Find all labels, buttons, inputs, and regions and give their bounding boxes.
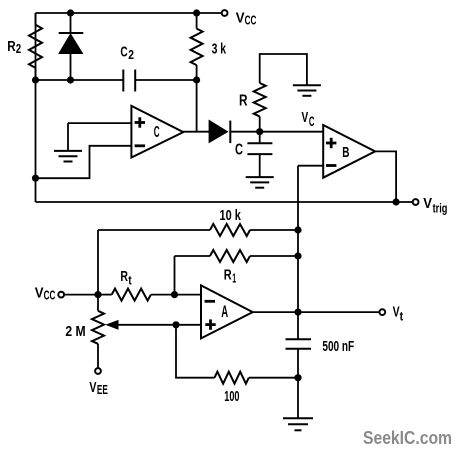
wire	[116, 324, 176, 326]
wire	[175, 294, 202, 296]
svg-text:A: A	[221, 302, 228, 321]
node junction wiper-Aplus	[172, 321, 179, 328]
svg-text:C: C	[309, 114, 315, 129]
label 500nF	[322, 339, 354, 355]
label R2	[7, 38, 21, 56]
svg-text:R: R	[239, 93, 248, 110]
svg-text:t: t	[400, 310, 404, 324]
resistor 3k	[191, 13, 203, 80]
svg-text:1: 1	[232, 272, 236, 286]
wire	[297, 349, 299, 419]
svg-text:C: C	[154, 124, 160, 141]
wire	[375, 151, 396, 202]
svg-text:C: C	[120, 44, 127, 61]
label Rt	[120, 268, 132, 288]
wire	[64, 294, 98, 296]
terminal Vt	[379, 309, 385, 315]
wire	[297, 166, 299, 340]
svg-text:V: V	[302, 109, 309, 126]
wire	[196, 80, 198, 132]
svg-text:3 k: 3 k	[212, 40, 227, 57]
op-amp U-B	[323, 125, 375, 178]
svg-text:trig: trig	[433, 201, 448, 215]
label VC	[302, 109, 315, 129]
label VCC bottom	[35, 285, 56, 303]
capacitor C	[247, 132, 272, 177]
node wiper arrow	[105, 320, 118, 330]
wire	[67, 123, 69, 150]
label R1	[224, 267, 236, 286]
wire	[36, 146, 132, 178]
capacitor 500nF	[286, 339, 312, 349]
wire	[35, 13, 37, 202]
svg-text:10 k: 10 k	[220, 207, 242, 224]
node junction R1-bus	[294, 252, 301, 259]
svg-text:B: B	[342, 144, 349, 161]
ground	[283, 418, 313, 430]
wire	[260, 131, 324, 133]
svg-text:EE: EE	[97, 383, 108, 397]
label VEE	[89, 379, 107, 397]
node junction 100-bus	[294, 374, 301, 381]
node junction Vtrig	[393, 198, 400, 205]
node junction rail-R2	[32, 76, 39, 83]
svg-text:V: V	[236, 10, 245, 27]
svg-text:CC: CC	[245, 14, 257, 28]
label C2	[120, 44, 134, 63]
resistor Rt	[98, 289, 175, 301]
wire	[36, 201, 413, 203]
diode D1	[59, 13, 84, 80]
svg-text:R: R	[7, 38, 16, 55]
node junction rail-3k	[193, 76, 200, 83]
svg-text:2: 2	[16, 42, 21, 56]
op-amp U-C	[131, 106, 183, 158]
resistor R	[254, 54, 307, 132]
node junction Aout-bus	[294, 309, 301, 316]
label Vt	[393, 303, 404, 323]
wire	[36, 12, 222, 14]
node junction top-3k	[193, 9, 200, 16]
svg-text:SeekIC.com: SeekIC.com	[363, 428, 452, 448]
label C	[235, 142, 243, 159]
node VC	[256, 128, 263, 135]
ground	[293, 85, 321, 96]
op-amp U-A	[201, 285, 253, 338]
node junction rail-diode	[67, 76, 74, 83]
label R	[239, 93, 248, 110]
node junction left-rail-feedback	[32, 175, 39, 182]
svg-text:2 M: 2 M	[65, 323, 85, 340]
svg-text:V: V	[393, 303, 400, 320]
wire	[68, 122, 131, 124]
wire	[135, 79, 196, 81]
svg-text:V: V	[35, 285, 44, 302]
label watermark SeekIC.com	[363, 428, 452, 448]
svg-text:R: R	[224, 267, 232, 284]
label 2M	[65, 323, 85, 340]
svg-text:V: V	[423, 195, 432, 212]
resistor 100	[176, 325, 298, 384]
diode D2	[209, 120, 260, 143]
node junction VCC-Rt-2M	[94, 291, 101, 298]
potentiometer 2M	[92, 295, 104, 369]
svg-text:100: 100	[224, 389, 239, 405]
terminal VEE	[95, 368, 101, 374]
wire	[298, 165, 323, 167]
resistor R2	[29, 13, 42, 80]
svg-text:C: C	[235, 142, 243, 159]
svg-text:500 nF: 500 nF	[322, 339, 354, 355]
label 3k	[212, 40, 227, 57]
label VCC top	[236, 10, 257, 28]
node junction Rt-R1-Aminus	[171, 291, 178, 298]
resistor R1	[175, 250, 299, 295]
resistor 10k	[98, 224, 298, 295]
terminal VCC bottom	[58, 292, 64, 298]
wire	[298, 311, 380, 313]
capacitor C2	[123, 70, 135, 92]
svg-text:2: 2	[128, 48, 134, 62]
ground	[246, 177, 274, 188]
node junction 10k-bus	[294, 226, 301, 233]
svg-text:t: t	[128, 273, 132, 287]
terminal Vtrig	[413, 199, 419, 205]
terminal VCC top	[222, 10, 228, 16]
wire	[253, 311, 298, 313]
wire	[176, 324, 201, 326]
label 10k	[220, 207, 242, 224]
node junction top-diode	[67, 9, 74, 16]
svg-text:CC: CC	[44, 289, 56, 303]
label 100	[224, 389, 239, 405]
svg-text:V: V	[89, 379, 96, 396]
label Vtrig	[423, 195, 447, 215]
svg-text:R: R	[120, 268, 128, 285]
wire	[183, 131, 209, 133]
ground	[54, 151, 82, 162]
wire	[36, 79, 124, 81]
